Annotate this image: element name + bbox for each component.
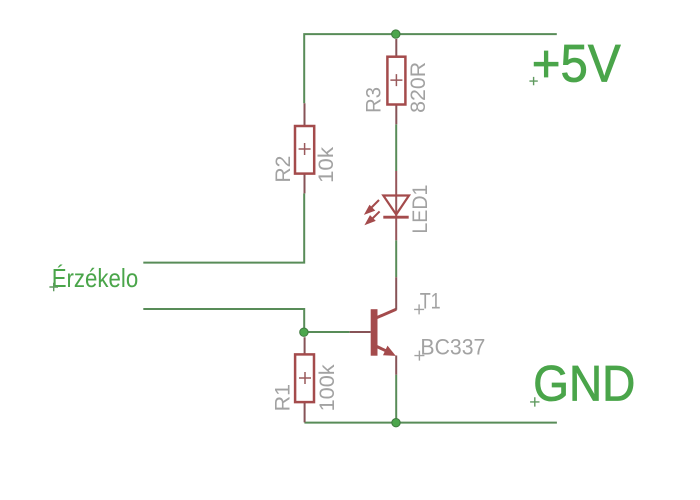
origin cross of GND (530, 397, 539, 406)
wire net Erzekelo lower to base junction (143, 309, 304, 332)
origin cross of label T1 (414, 304, 424, 314)
svg-text:+5V: +5V (532, 34, 621, 93)
svg-text:10k: 10k (315, 146, 338, 183)
wire net R3 bottom to LED1 top (395, 124, 397, 171)
transistor T1 BC337 (350, 277, 397, 375)
svg-text:LED1: LED1 (409, 185, 432, 234)
LED LED1 (371, 171, 409, 240)
wire net GND bottom rail (304, 422, 557, 424)
wire net from R2 bottom to Erzekelo upper (143, 193, 304, 262)
origin cross of label BC337 (414, 351, 424, 361)
wire base net junction to T1 base (304, 331, 350, 333)
junction dot on +5V rail at R3 (392, 30, 400, 38)
resistor R2 (295, 103, 314, 193)
svg-text:820R: 820R (407, 62, 430, 113)
LED1 emission arrowheads (364, 205, 376, 225)
resistor R1 (295, 337, 314, 422)
svg-text:R2: R2 (272, 156, 295, 183)
origin cross of +5V (529, 77, 537, 85)
svg-text:BC337: BC337 (420, 335, 485, 360)
resistor R3 (387, 39, 405, 124)
svg-text:Érzékelo: Érzékelo (52, 263, 139, 293)
origin cross of Erzekelo (49, 283, 58, 292)
wire net LED1 bottom to T1 collector (395, 240, 397, 277)
wire net T1 emitter to GND rail (395, 375, 397, 423)
svg-text:R3: R3 (362, 87, 385, 113)
junction dot base node at R1 top (300, 328, 308, 336)
wire net +5V top rail (304, 34, 557, 103)
svg-text:R1: R1 (272, 384, 295, 412)
svg-text:100k: 100k (316, 364, 339, 412)
junction dot on GND rail at emitter (392, 419, 400, 427)
svg-text:GND: GND (533, 356, 635, 412)
